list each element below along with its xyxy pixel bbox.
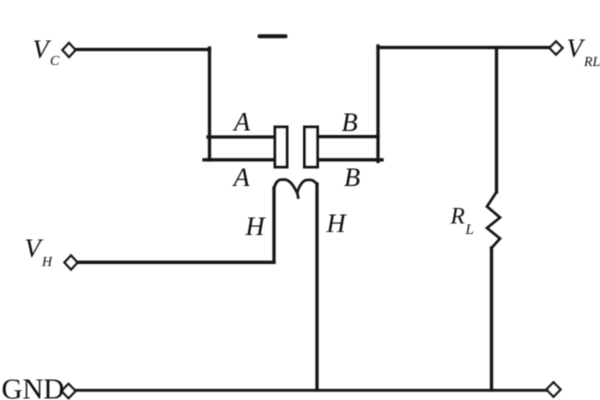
electrode bar A bottom line bbox=[204, 158, 274, 161]
svg-text:RL: RL bbox=[583, 55, 600, 70]
electrode bar B bottom line bbox=[319, 158, 382, 161]
terminal VRL diamond bbox=[550, 42, 563, 55]
terminal GND-left diamond bbox=[62, 384, 76, 398]
svg-text:GND: GND bbox=[2, 374, 65, 400]
plate B of vacuum gap bbox=[305, 127, 318, 167]
svg-text:C: C bbox=[50, 54, 60, 69]
svg-text:H: H bbox=[245, 211, 267, 241]
terminal GND-right diamond bbox=[547, 382, 561, 396]
wire from heater left lead to VH terminal bbox=[77, 261, 274, 264]
heater left lead bbox=[272, 188, 275, 262]
terminal VH diamond bbox=[65, 256, 78, 270]
svg-text:B: B bbox=[342, 107, 358, 137]
resistor RL zigzag bbox=[487, 192, 500, 248]
plate A of vacuum gap bbox=[275, 127, 287, 167]
wire vertical from electrode bar B up to top-right rail bbox=[376, 46, 379, 162]
ground rail wire bbox=[76, 389, 546, 392]
wire from VC terminal to top-left corner bbox=[75, 48, 210, 51]
wire top-right rail to VRL terminal bbox=[378, 46, 549, 49]
heater filament squiggle bbox=[274, 180, 317, 198]
svg-text:V: V bbox=[25, 233, 44, 263]
svg-text:V: V bbox=[33, 34, 52, 64]
svg-text:A: A bbox=[232, 162, 251, 192]
heater right lead down to ground rail bbox=[315, 184, 318, 390]
electrode bar A top line bbox=[208, 135, 274, 138]
svg-text:R: R bbox=[450, 204, 465, 230]
minus mark above plates bbox=[260, 34, 286, 38]
wire from top rail down to resistor RL bbox=[495, 48, 498, 193]
electrode bar B top line bbox=[319, 135, 378, 138]
wire vertical from VC corner down to electrode bar A bbox=[208, 48, 211, 160]
svg-text:B: B bbox=[344, 162, 360, 192]
svg-text:L: L bbox=[465, 222, 474, 238]
svg-text:V: V bbox=[567, 33, 586, 63]
svg-text:A: A bbox=[232, 107, 251, 137]
svg-text:H: H bbox=[326, 208, 348, 238]
svg-text:H: H bbox=[41, 255, 53, 270]
wire from resistor RL down to ground rail bbox=[490, 248, 493, 390]
terminal VC diamond bbox=[63, 43, 76, 57]
